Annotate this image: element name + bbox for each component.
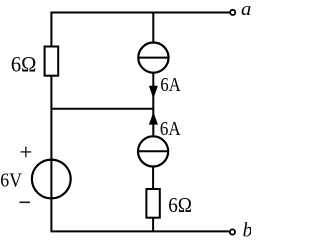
wire middle horizontal xyxy=(51,108,154,110)
wire left vertical lower xyxy=(50,76,52,231)
current source I2 circle xyxy=(138,136,168,166)
current source I2 bar xyxy=(139,150,168,152)
resistor R1 6ohm left xyxy=(45,47,59,76)
svg-text:6A: 6A xyxy=(160,118,181,140)
arrow up 6A xyxy=(149,112,158,125)
voltage source V1 circle xyxy=(32,160,71,199)
svg-text:6V: 6V xyxy=(0,170,22,192)
terminal a xyxy=(230,10,235,15)
wire I1 to middle xyxy=(152,72,154,109)
wire R2 to bottom xyxy=(152,218,154,233)
wire I2 to R2 xyxy=(152,166,154,190)
wire top horizontal xyxy=(51,12,230,14)
wire bottom horizontal xyxy=(51,230,230,232)
label plus xyxy=(21,147,32,158)
svg-text:6Ω: 6Ω xyxy=(11,51,37,76)
wire middle to I2 xyxy=(152,109,154,138)
wire right branch top xyxy=(152,12,154,44)
svg-text:a: a xyxy=(241,0,251,20)
wire left vertical upper xyxy=(50,12,52,47)
svg-text:b: b xyxy=(243,220,251,241)
arrow down 6A xyxy=(149,86,158,99)
terminal b xyxy=(230,229,235,234)
current source I1 circle xyxy=(138,43,168,73)
current source I1 bar xyxy=(139,57,168,59)
resistor R2 6ohm right xyxy=(146,189,159,218)
svg-text:6A: 6A xyxy=(160,75,180,96)
label minus xyxy=(19,201,30,203)
svg-text:6Ω: 6Ω xyxy=(168,193,192,217)
